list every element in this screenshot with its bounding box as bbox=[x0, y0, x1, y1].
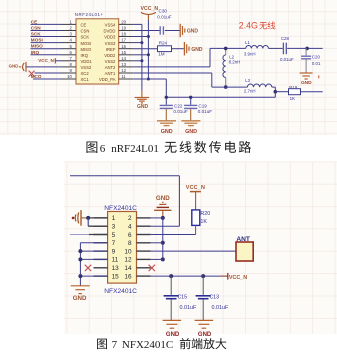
svg-text:0.01uF: 0.01uF bbox=[212, 305, 229, 311]
svg-text:2.7nH: 2.7nH bbox=[244, 88, 256, 93]
svg-text:18: 18 bbox=[121, 32, 126, 37]
svg-text:GND: GND bbox=[9, 64, 19, 69]
svg-text:15: 15 bbox=[121, 50, 126, 55]
svg-text:CE: CE bbox=[31, 19, 38, 24]
svg-text:12: 12 bbox=[121, 68, 126, 73]
svg-text:VSS3: VSS3 bbox=[105, 41, 116, 46]
svg-text:SCK: SCK bbox=[31, 32, 42, 37]
svg-text:6: 6 bbox=[100, 143, 106, 155]
svg-text:GND: GND bbox=[185, 129, 197, 135]
svg-text:C13: C13 bbox=[210, 295, 220, 301]
svg-text:0.01uF: 0.01uF bbox=[180, 305, 197, 311]
svg-text:10: 10 bbox=[124, 248, 132, 255]
svg-text:12: 12 bbox=[124, 257, 132, 264]
svg-text:IRQ: IRQ bbox=[81, 53, 89, 58]
svg-text:3.9nH: 3.9nH bbox=[244, 51, 256, 56]
svg-text:C15: C15 bbox=[178, 295, 188, 301]
svg-text:IREF: IREF bbox=[106, 47, 116, 52]
svg-text:R20: R20 bbox=[200, 211, 210, 217]
svg-text:VDD3: VDD3 bbox=[104, 35, 116, 40]
svg-text:GND: GND bbox=[156, 195, 170, 202]
svg-text:nRF24L01: nRF24L01 bbox=[111, 143, 159, 155]
svg-text:16: 16 bbox=[124, 273, 132, 280]
svg-text:XC1: XC1 bbox=[81, 77, 90, 82]
svg-text:NFX2401C: NFX2401C bbox=[122, 339, 173, 351]
svg-text:VSS2: VSS2 bbox=[105, 59, 116, 64]
svg-text:17: 17 bbox=[121, 38, 126, 43]
svg-text:1K: 1K bbox=[200, 219, 207, 225]
svg-text:1K: 1K bbox=[290, 96, 295, 101]
svg-text:NFX2401C: NFX2401C bbox=[104, 205, 137, 212]
svg-text:C30: C30 bbox=[159, 9, 168, 14]
svg-text:GND: GND bbox=[161, 129, 173, 135]
svg-text:6: 6 bbox=[128, 232, 132, 239]
svg-text:20: 20 bbox=[121, 20, 126, 25]
svg-text:14: 14 bbox=[124, 265, 132, 272]
svg-text:ANT2: ANT2 bbox=[105, 65, 116, 70]
svg-text:GND: GND bbox=[198, 332, 212, 338]
svg-text:CE: CE bbox=[81, 23, 87, 28]
svg-text:MOSI: MOSI bbox=[31, 38, 43, 43]
svg-text:0.01uF: 0.01uF bbox=[280, 57, 294, 62]
svg-text:ANT1: ANT1 bbox=[105, 71, 116, 76]
svg-text:XC2: XC2 bbox=[81, 71, 90, 76]
svg-text:CSN: CSN bbox=[31, 26, 42, 31]
svg-text:7: 7 bbox=[112, 339, 118, 351]
svg-text:C20: C20 bbox=[312, 55, 321, 60]
svg-text:NFX2401C: NFX2401C bbox=[104, 288, 137, 295]
svg-text:MOSI: MOSI bbox=[81, 41, 92, 46]
svg-text:R19: R19 bbox=[289, 85, 298, 90]
svg-text:0.01: 0.01 bbox=[312, 61, 321, 66]
svg-text:5: 5 bbox=[112, 232, 116, 239]
svg-text:11: 11 bbox=[121, 74, 126, 79]
svg-text:GND: GND bbox=[137, 104, 149, 110]
svg-text:VSS4: VSS4 bbox=[105, 23, 116, 28]
svg-text:1M: 1M bbox=[158, 52, 165, 57]
svg-text:13: 13 bbox=[121, 62, 126, 67]
svg-text:1: 1 bbox=[112, 215, 116, 222]
svg-text:14: 14 bbox=[121, 56, 126, 61]
svg-text:0.01uF: 0.01uF bbox=[173, 109, 187, 114]
svg-text:VCC_N: VCC_N bbox=[141, 6, 159, 12]
svg-text:CSN: CSN bbox=[81, 29, 90, 34]
svg-text:DVDD: DVDD bbox=[104, 29, 116, 34]
svg-text:16: 16 bbox=[121, 44, 126, 49]
svg-text:13: 13 bbox=[112, 265, 120, 272]
svg-text:8: 8 bbox=[128, 240, 132, 247]
svg-text:GND: GND bbox=[187, 28, 199, 34]
svg-text:8.2nH: 8.2nH bbox=[229, 60, 241, 65]
svg-text:MISO: MISO bbox=[31, 44, 43, 49]
svg-text:GND: GND bbox=[166, 332, 180, 338]
svg-text:GND: GND bbox=[73, 295, 87, 302]
svg-text:SCK: SCK bbox=[81, 35, 90, 40]
svg-text:C28: C28 bbox=[281, 36, 290, 41]
svg-text:9: 9 bbox=[112, 248, 116, 255]
svg-text:MCO: MCO bbox=[31, 74, 42, 79]
svg-text:3: 3 bbox=[112, 224, 116, 231]
svg-text:C19: C19 bbox=[198, 104, 207, 109]
svg-text:L1: L1 bbox=[245, 40, 250, 45]
svg-text:VSS2: VSS2 bbox=[81, 65, 92, 70]
svg-text:L3: L3 bbox=[245, 78, 250, 83]
svg-text:0.01uF: 0.01uF bbox=[157, 14, 171, 19]
svg-text:7: 7 bbox=[112, 240, 116, 247]
svg-text:0.01uF: 0.01uF bbox=[198, 109, 212, 114]
svg-text:VDD1: VDD1 bbox=[81, 59, 93, 64]
svg-text:VCC_N: VCC_N bbox=[186, 185, 205, 191]
svg-text:2: 2 bbox=[128, 215, 132, 222]
svg-text:R24: R24 bbox=[159, 40, 168, 45]
svg-text:10: 10 bbox=[67, 74, 72, 79]
svg-text:19: 19 bbox=[121, 26, 126, 31]
svg-text:VDD2: VDD2 bbox=[104, 53, 116, 58]
svg-text:IRQ: IRQ bbox=[31, 50, 40, 55]
svg-text:C22: C22 bbox=[174, 104, 183, 109]
svg-text:MISO: MISO bbox=[81, 47, 92, 52]
svg-text:NRF24L01+: NRF24L01+ bbox=[75, 12, 104, 17]
svg-text:VDD_PA: VDD_PA bbox=[99, 77, 116, 82]
svg-text:GND: GND bbox=[301, 80, 312, 86]
svg-text:VCC_N: VCC_N bbox=[38, 58, 54, 63]
svg-text:4: 4 bbox=[128, 224, 132, 231]
svg-text:11: 11 bbox=[112, 257, 119, 264]
svg-text:15: 15 bbox=[112, 273, 120, 280]
svg-text:2.4G: 2.4G bbox=[239, 21, 258, 31]
svg-text:GND: GND bbox=[191, 47, 203, 53]
svg-text:VCC_N: VCC_N bbox=[229, 275, 247, 281]
